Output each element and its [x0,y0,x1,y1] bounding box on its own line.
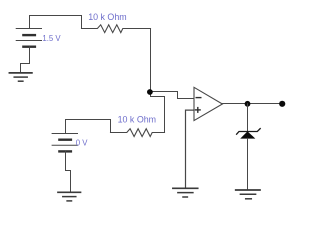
svg-text:0 V: 0 V [76,138,89,147]
op-amp U1 plus sign [196,108,201,113]
resistor R1 10k [82,25,151,33]
wire V2 top to R2 [66,120,111,134]
wire zener to ground [247,138,249,189]
wire R1 to node N1 [150,29,152,93]
ground GND3 [173,188,198,197]
output terminal dot [279,101,285,107]
node output junction dot [245,101,251,107]
zener diode D1 anode triangle [241,132,254,138]
svg-text:1.5 V: 1.5 V [42,34,61,43]
wire V2 bottom to ground [66,151,71,191]
zener diode D1 cathode bar [237,129,261,135]
ground GND2 [58,192,81,201]
op-amp U1 minus sign [196,97,201,99]
wire output node down to zener [247,104,249,132]
wire V1 bottom to ground [21,47,30,73]
wire V1 top to R1 [30,16,82,29]
resistor R2 10k [111,129,165,137]
ground GND1 [9,73,32,81]
node N1 junction dot [147,89,153,95]
svg-text:10 k Ohm: 10 k Ohm [118,115,156,125]
ground GND4 [236,190,260,199]
battery V1 [16,29,41,47]
wire node N1 down to R2 [151,92,165,133]
battery V2 [52,134,77,152]
svg-text:10 k Ohm: 10 k Ohm [88,12,126,22]
wire op-amp output [222,103,282,105]
wire node N1 to op-amp minus input [150,92,194,99]
wire op-amp plus input to ground [186,110,195,188]
op-amp U1 triangle [194,87,222,120]
